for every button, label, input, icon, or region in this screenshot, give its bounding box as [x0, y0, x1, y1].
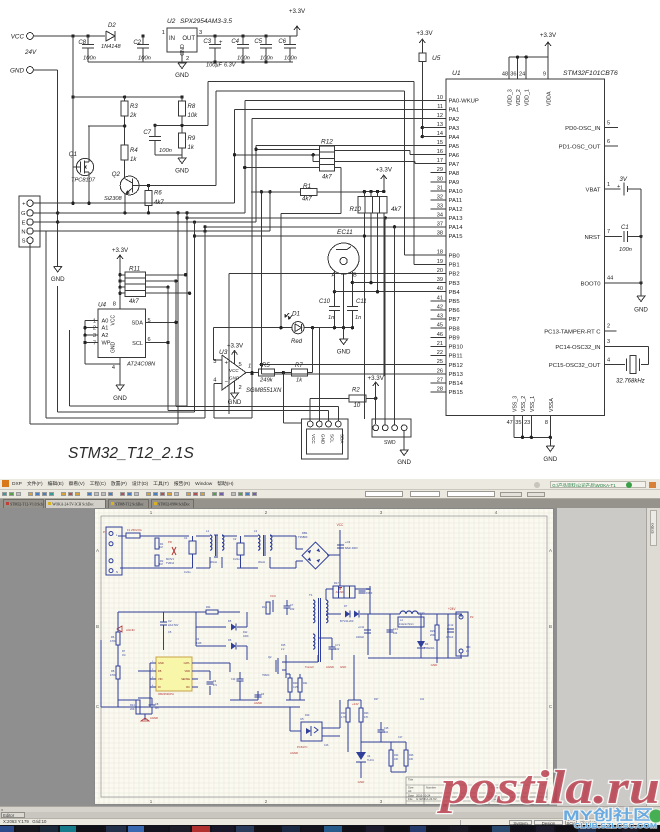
TL431 U4 — [356, 752, 366, 760]
capacitor C5 100n — [264, 34, 267, 37]
wire PB4 row — [334, 291, 430, 293]
wire U4 SDA — [146, 321, 176, 323]
varistor MOV1 — [172, 547, 176, 555]
fuse F1 — [126, 533, 140, 538]
taskbar — [0, 825, 660, 832]
ferrite U5 — [421, 49, 423, 137]
R12 lower right wire down — [335, 167, 341, 169]
pin 18 PB0 — [431, 254, 446, 256]
ground BOOT0 — [637, 296, 645, 302]
resistor R29 — [435, 625, 439, 640]
pin 33 PA12 — [431, 208, 446, 210]
resistor R2 10 — [309, 398, 311, 420]
opamp output bus vertical — [260, 192, 262, 374]
connector P3 SWD — [372, 419, 411, 437]
bus SDA vertical — [175, 281, 177, 406]
capacitor C11 1n — [347, 306, 358, 308]
bottom rail caps — [88, 61, 293, 63]
svg-text:CLUB.SZLCSC.COM: CLUB.SZLCSC.COM — [574, 821, 657, 830]
resistor R7 1k — [291, 369, 307, 376]
pin 42 PB6 — [431, 309, 446, 311]
choke L3 — [258, 535, 260, 550]
pin 37 PA14 — [431, 226, 446, 228]
pin 26 PB13 — [431, 373, 446, 375]
wire PA4 stub link — [422, 136, 430, 138]
resistor R6 4k7 — [147, 184, 150, 187]
bus nested loop N — [204, 227, 206, 418]
pin 30 PA9 — [431, 181, 446, 183]
wire D2 to C2 — [141, 34, 144, 37]
CY1 cap — [329, 646, 336, 648]
junction VCC column — [71, 34, 74, 37]
wire GND terminal to ground column — [33, 69, 57, 71]
pin 13 PA3 — [431, 127, 446, 129]
wire SWD pin2 PA13 — [384, 218, 386, 425]
canvas — [0, 508, 660, 806]
wire rail row y327.7 — [214, 327, 292, 329]
pin 11 PA1 — [431, 109, 446, 111]
caps near IC — [237, 678, 244, 680]
wire PA3 stub link — [422, 127, 430, 129]
wires output filter — [367, 614, 369, 655]
wire PA13 row — [185, 216, 188, 219]
pin 27 PB14 — [431, 382, 446, 384]
pin 39 PB3 — [431, 282, 446, 284]
wire R8/R9 junction row — [155, 124, 208, 126]
wire op-amp plus input from rail — [213, 328, 215, 361]
toolbar — [0, 490, 660, 499]
ground U2 pin2 — [181, 52, 183, 63]
capacitor C10 1n — [329, 306, 340, 308]
wire PA0 row from G net — [245, 100, 431, 102]
wire U2 OUT rail +3.3V — [197, 35, 297, 37]
power +3.3V rail top — [293, 35, 297, 37]
capacitor C4 100n — [241, 34, 244, 37]
wire SWD pin3 PA14 — [394, 227, 396, 425]
resistor R3 2k — [123, 95, 126, 98]
pin 41 PB5 — [431, 300, 446, 302]
wire row y97 — [71, 95, 74, 98]
wire Q1 source down to plus row — [88, 172, 90, 203]
pin 28 PB15 — [431, 391, 446, 393]
menu bar — [0, 479, 660, 490]
pin 17 PA7 — [431, 163, 446, 165]
diode D2 1N4148 — [106, 31, 115, 41]
wire N row — [34, 230, 270, 232]
wire SWD vcc — [375, 398, 377, 424]
ground rail — [343, 328, 345, 339]
crystal Y1 32.768kHz — [626, 359, 628, 371]
power +3.3V R2 — [375, 382, 377, 392]
U1 VDD top pins — [508, 57, 510, 79]
pin 22 PB11 — [431, 355, 446, 357]
pin 40 PB4 — [431, 291, 446, 293]
capacitor C2 100n — [142, 36, 144, 45]
wire PA15 row — [193, 234, 196, 237]
pin 34 PA13 — [431, 217, 446, 219]
cap C12 — [447, 628, 454, 630]
cap C3 bulk — [337, 544, 344, 546]
bus nested loop G — [186, 213, 188, 406]
R12 left wires — [256, 148, 320, 150]
vertical to D1 row — [280, 213, 282, 327]
wire OLED GND up — [318, 328, 320, 421]
resistor R9 1k — [179, 133, 186, 148]
ground SWD — [403, 431, 405, 450]
wire EC11 B — [351, 272, 353, 307]
wire PB12 row — [260, 363, 263, 366]
ground symbol handle — [54, 267, 62, 273]
op-amp output node — [246, 372, 258, 374]
power +3.3V R11 — [119, 255, 121, 265]
extra wires density — [164, 611, 197, 613]
pin 31 PA10 — [431, 190, 446, 192]
wire G row — [34, 212, 245, 214]
capacitor C8 100n — [87, 36, 89, 45]
LED D1 Red — [292, 322, 304, 334]
pin 45 PB8 — [431, 327, 446, 329]
wire PB3 row — [352, 282, 430, 284]
wire net R8R9 to PA1 — [180, 124, 183, 127]
snubber R17 C10 — [333, 586, 355, 598]
diodes D5 D6 — [231, 624, 236, 631]
pin 25 PB12 — [431, 364, 446, 366]
connector J1 handle + G E N S — [19, 196, 40, 247]
R11 right pin wires — [146, 274, 186, 276]
resistor R1 4k7 — [251, 191, 301, 193]
bridge rectifier DB1 — [302, 542, 329, 569]
power +3.3V U1 — [547, 42, 549, 52]
terminal GND input — [27, 67, 34, 74]
resistors R6 R8 left — [116, 632, 120, 645]
pin 19 PB1 — [431, 263, 446, 265]
wire PA2 row from op-amp — [251, 119, 253, 374]
pin 21 PB10 — [431, 345, 446, 347]
wire PA1 row from plus net — [235, 109, 431, 111]
resistor R16 — [266, 602, 270, 614]
cap C2b — [160, 621, 167, 623]
wire U4 SCL — [146, 342, 169, 344]
U1 VSS bottom pins — [513, 416, 515, 438]
capacitor C3 100uF 6.3V — [213, 34, 216, 37]
X cap C1 — [189, 541, 196, 554]
wire Q2 collector row — [132, 185, 216, 187]
connector P2 OLED VCC GND SCL SDA — [302, 419, 348, 459]
resistor R4 1k — [121, 145, 128, 160]
wire PB2 — [228, 273, 230, 414]
resistor R5 249k — [258, 369, 274, 376]
wire S column — [29, 244, 31, 425]
pin 16 PA6 — [431, 154, 446, 156]
wire divider tap down — [282, 373, 284, 423]
wire R7 to rail — [307, 372, 312, 374]
R11 horizontal — [206, 610, 218, 614]
status bar — [0, 818, 660, 825]
terminal VCC 24V input — [27, 33, 34, 40]
editor tab row — [0, 812, 660, 818]
wire op-amp inverting input — [214, 383, 222, 385]
optocoupler U5 PC817 — [301, 722, 322, 741]
wires AC row — [120, 535, 126, 537]
scroll strip — [0, 806, 660, 812]
cap C11 C13 — [364, 629, 371, 631]
cap C2x — [237, 543, 244, 555]
pin 46 PB9 — [431, 336, 446, 338]
connector P1 AC input — [106, 527, 122, 575]
pin 10 PA0-WKUP — [431, 100, 446, 102]
pin 12 PA2 — [431, 118, 446, 120]
tab bar — [0, 499, 660, 509]
wire PA14 row — [203, 225, 206, 228]
ground U1 — [549, 437, 551, 446]
pin 14 PA4 — [431, 136, 446, 138]
MOSFET Q2 and sense — [275, 660, 277, 672]
R10 bottom pins — [363, 213, 365, 419]
wire Q1 drain up to gate row — [88, 126, 90, 162]
choke L1 — [210, 535, 212, 550]
capacitor C7 100n — [153, 124, 156, 127]
junction C8 — [86, 34, 89, 37]
resistor R1 input — [155, 538, 159, 549]
wire net Q2 collector to PA0 — [215, 91, 217, 186]
pin 15 PA5 — [431, 145, 446, 147]
bus SCL vertical — [167, 287, 169, 410]
wire VCC rail down — [339, 555, 341, 586]
diode D4 zener — [417, 641, 425, 648]
capacitor C6 100n — [289, 36, 291, 45]
bus nested loop E — [194, 222, 196, 412]
cluster C: feedback — [101, 706, 300, 708]
resistor R8 10k — [180, 95, 183, 98]
inductor L2 — [400, 611, 418, 614]
diode D7 — [345, 611, 350, 618]
pin 29 PA8 — [431, 172, 446, 174]
R22 R23 — [346, 708, 350, 722]
C15 R24 R26 — [378, 729, 385, 731]
wire EC11 A — [333, 272, 335, 307]
transformer T1 — [313, 600, 315, 623]
wire EC11 common — [343, 274, 345, 328]
wire E row — [34, 221, 256, 223]
pin 20 PB2 — [431, 272, 446, 274]
ground R9 — [178, 158, 186, 164]
pin 38 PA15 — [431, 235, 446, 237]
IC U1 OB2269 — [156, 657, 192, 691]
pin 43 PB7 — [431, 318, 446, 320]
ground U4 — [119, 358, 121, 386]
bottom-left R14 C8 — [136, 700, 140, 714]
junction gate row — [123, 124, 126, 127]
R12 right wires to PA6 PA7 — [335, 150, 410, 152]
wire PB13 row — [261, 373, 430, 375]
pin 32 PA11 — [431, 199, 446, 201]
cap C7 — [284, 605, 291, 607]
